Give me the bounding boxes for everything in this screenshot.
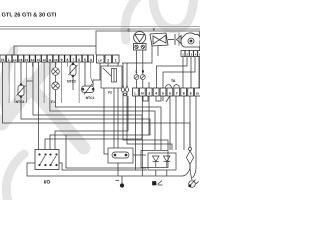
svg-text:L: L	[135, 70, 137, 74]
svg-text:8: 8	[66, 58, 68, 62]
svg-text:4: 4	[90, 58, 92, 62]
svg-text:NTC1: NTC1	[86, 96, 95, 100]
svg-text:8: 8	[183, 91, 185, 95]
svg-text:LF: LF	[98, 58, 102, 62]
svg-text:5: 5	[84, 58, 86, 62]
svg-text:12: 12	[42, 58, 46, 62]
svg-text:13: 13	[37, 58, 41, 62]
svg-text:C: C	[128, 28, 131, 33]
svg-text:2: 2	[107, 58, 109, 62]
svg-text:TA: TA	[171, 79, 176, 83]
svg-text:L: L	[134, 91, 136, 95]
svg-text:15: 15	[25, 58, 29, 62]
svg-text:NTC3: NTC3	[16, 100, 25, 104]
svg-text:9: 9	[190, 91, 192, 95]
svg-text:Y: Y	[153, 27, 156, 32]
svg-text:1: 1	[115, 58, 117, 62]
svg-text:NTC2: NTC2	[67, 80, 76, 84]
svg-text:7: 7	[72, 58, 74, 62]
svg-text:F2: F2	[108, 91, 112, 95]
svg-text:I/O: I/O	[44, 180, 51, 186]
svg-text:F1: F1	[51, 100, 55, 104]
svg-text:11: 11	[48, 58, 52, 62]
svg-text:10: 10	[196, 91, 200, 95]
svg-text:6: 6	[169, 91, 171, 95]
svg-text:5: 5	[199, 52, 200, 56]
svg-text:3: 3	[148, 91, 150, 95]
svg-text:4: 4	[155, 91, 157, 95]
svg-text:10: 10	[54, 58, 58, 62]
svg-text:7: 7	[176, 91, 178, 95]
svg-text:14: 14	[31, 58, 35, 62]
svg-text:16: 16	[19, 58, 23, 62]
svg-text:5: 5	[162, 91, 164, 95]
svg-text:9: 9	[61, 58, 63, 62]
svg-text:6: 6	[78, 58, 80, 62]
svg-text:N: N	[142, 70, 145, 74]
svg-text:L: L	[8, 58, 10, 62]
svg-text:GTI, 26 GTI & 30 GTI: GTI, 26 GTI & 30 GTI	[2, 13, 57, 19]
